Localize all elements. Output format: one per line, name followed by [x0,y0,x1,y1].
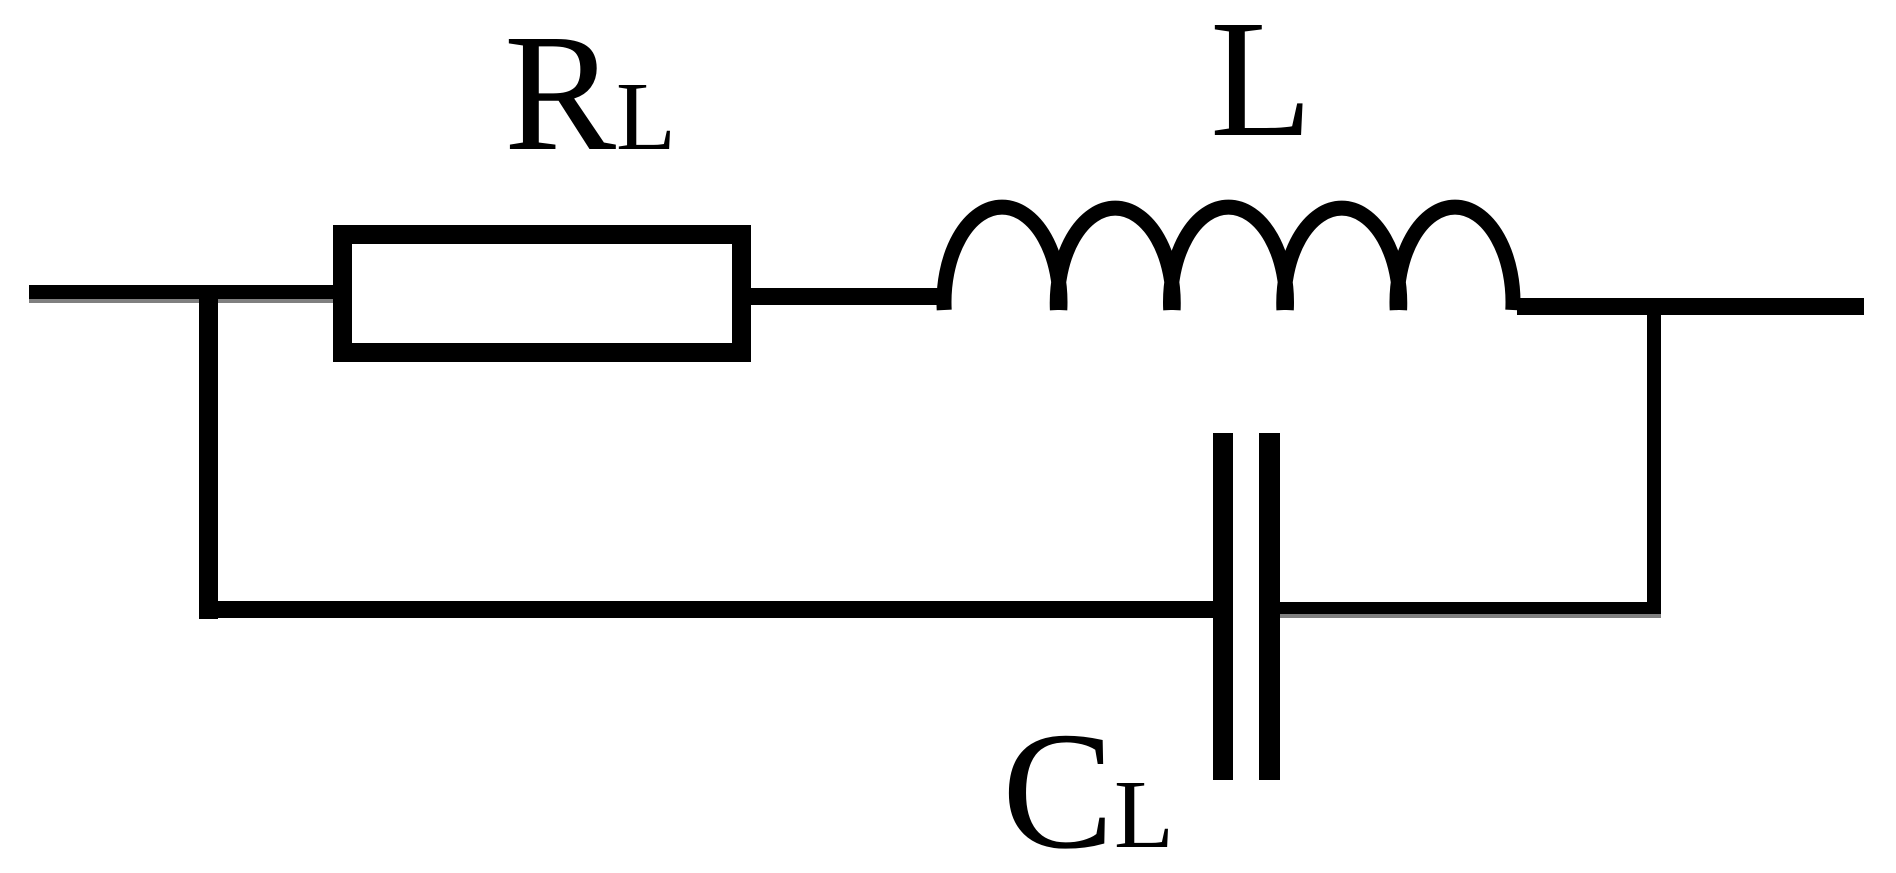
wire: left vertical branch from node A down [199,292,218,619]
wire: inductor to right output lead [1517,298,1864,315]
label CL [1002,698,1174,873]
svg-text:L: L [1210,0,1313,172]
wire: left input lead [29,285,333,303]
wire: capacitor to right vertical branch [1280,602,1661,618]
svg-text:L: L [616,63,676,171]
wire: right vertical branch [1647,298,1661,614]
label RL [504,0,676,186]
capacitor CL left plate [1213,433,1233,780]
wire: resistor to inductor [751,288,951,305]
svg-text:L: L [1114,761,1174,869]
capacitor CL right plate [1259,433,1280,780]
wire: bottom run from node A to capacitor [199,601,1213,618]
resistor RL (rectangle body) [343,235,742,353]
svg-text:R: R [504,0,616,186]
svg-text:C: C [1002,698,1114,873]
inductor L (5 humps) [944,207,1513,310]
